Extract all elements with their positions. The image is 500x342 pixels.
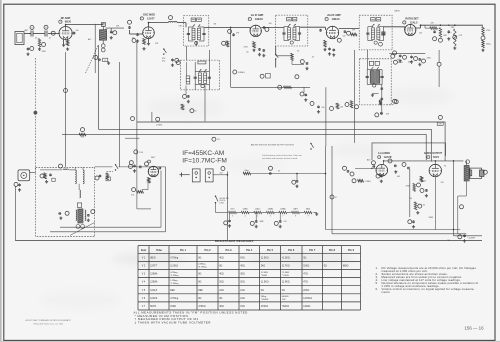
capacitor under T3 with ground	[306, 61, 308, 64]
ref circle lower right of T3	[295, 75, 299, 79]
tuner right ref circle	[91, 210, 95, 214]
T7 side trimmer caps	[366, 76, 368, 78]
ref circle R1	[42, 43, 46, 47]
svg-text:RATIO: RATIO	[395, 10, 401, 13]
T7 primary winding	[370, 71, 374, 84]
resistor on y87 wire	[284, 86, 292, 89]
FM antenna transformer windings	[75, 170, 76, 184]
ref circle C9	[175, 58, 179, 62]
tuner input resistor	[44, 173, 47, 179]
ground below trimmer	[110, 36, 112, 37]
svg-text:©Howard W. Sams & Co., Inc. 19: ©Howard W. Sams & Co., Inc. 1952	[33, 322, 63, 325]
motor ground branch	[14, 182, 18, 186]
phono plug symbol	[179, 174, 189, 176]
svg-text:0Ω: 0Ω	[324, 264, 327, 267]
svg-text:.005: .005	[397, 176, 401, 178]
svg-text:12Ω: 12Ω	[240, 289, 245, 292]
ref circle left of T5	[176, 61, 180, 65]
T7 output vertical	[381, 85, 383, 116]
svg-text:600: 600	[81, 137, 84, 139]
svg-text:1st IF AMP: 1st IF AMP	[251, 14, 264, 17]
audio top wire	[384, 160, 464, 162]
svg-text:Coil resistance values of less: Coil resistance values of less than 1 oh…	[262, 154, 303, 157]
svg-text:600KΩ: 600KΩ	[282, 296, 289, 298]
svg-text:12AT7: 12AT7	[293, 207, 298, 210]
det routing bottom return	[50, 231, 166, 233]
svg-text:B: B	[45, 27, 46, 29]
svg-text:10KΩ: 10KΩ	[303, 264, 309, 267]
phono motor box	[18, 170, 30, 181]
svg-text:35: 35	[423, 205, 425, 207]
ref circle on y87 wire	[278, 85, 282, 89]
svg-text:50C5: 50C5	[230, 208, 234, 210]
B+ riser left of T7	[354, 50, 356, 143]
ref circle near x350	[345, 103, 349, 107]
ref circle C30	[347, 31, 351, 35]
T5 primary winding	[199, 73, 202, 83]
tube V1 RF AMP 6BJ6	[59, 26, 72, 39]
T6 top lead	[466, 161, 468, 166]
svg-text:2nd IF AMP: 2nd IF AMP	[327, 14, 341, 17]
svg-text:100: 100	[343, 36, 346, 38]
filament resistor 6BJ6	[304, 211, 312, 213]
V6 grid resistor 4.7Meg	[358, 180, 364, 183]
V7 screen wire down	[434, 177, 436, 230]
svg-text:4.7MEG: 4.7MEG	[365, 181, 372, 183]
branch down from jack wire	[296, 174, 298, 181]
svg-text:40Ω: 40Ω	[219, 273, 224, 276]
svg-text:0Ω: 0Ω	[261, 289, 264, 292]
svg-text:12AV6: 12AV6	[150, 297, 158, 300]
AM-FM band switch S1A	[163, 48, 164, 49]
power riser pair	[325, 146, 327, 230]
V4 cathode resistor	[324, 40, 327, 47]
svg-text:3: 3	[232, 216, 233, 218]
capacitor C2 with ground	[27, 48, 29, 49]
resistor R21 vertical	[439, 28, 442, 38]
ground below R1	[39, 48, 41, 49]
tube V5 RATIO DET 12AL5	[405, 24, 416, 35]
wire vol to detector	[142, 189, 148, 191]
filament resistor 12AV6	[241, 211, 249, 213]
svg-text:*2.2Meg: *2.2Meg	[170, 275, 179, 277]
filament shunt c ref	[274, 221, 278, 225]
wire T2 bottom out	[195, 41, 197, 46]
svg-text:1st AUDIO: 1st AUDIO	[378, 152, 390, 155]
filament end ground	[313, 212, 316, 214]
ref circle above det wire	[129, 161, 133, 165]
ref circle lower left of T3	[260, 74, 264, 78]
svg-text:*150KΩ: *150KΩ	[261, 299, 269, 301]
AM IF transformer T5 dashed can	[180, 60, 219, 90]
wire V3 to T3	[261, 26, 284, 28]
svg-text:Tube: Tube	[156, 249, 162, 252]
vertical wire x205 to bus	[204, 86, 206, 122]
branch cap at x304	[303, 87, 305, 92]
pilot lamp circles under transformer	[76, 225, 80, 229]
wire into V2 grid	[130, 33, 144, 35]
RF input line from FM tuner	[65, 52, 67, 167]
variable capacitor C1B	[44, 31, 46, 37]
resistance table grid	[137, 246, 139, 310]
wire tuner to det section	[95, 166, 113, 168]
ref circle lower left of T7	[355, 105, 359, 109]
osc pad line x136.9	[136, 41, 138, 163]
padder capacitor	[137, 33, 139, 34]
branch cap at x186	[185, 86, 187, 95]
tuner left ground	[60, 217, 62, 218]
svg-text:ments.: ments.	[382, 290, 391, 294]
dash-dot to band switch	[107, 171, 114, 173]
svg-text:6: 6	[270, 216, 271, 218]
tuner input ground	[46, 180, 48, 181]
svg-text:4.7Meg: 4.7Meg	[170, 272, 178, 274]
filament resistor 12AT7	[292, 211, 300, 213]
filament resistor 50C5	[229, 211, 237, 213]
svg-text:1.2Meg: 1.2Meg	[170, 280, 178, 282]
band switch blade lower S1C	[115, 164, 116, 165]
line bus y235.8	[454, 235, 483, 237]
svg-text:200: 200	[220, 172, 223, 174]
filter electrolytic ref	[458, 235, 462, 239]
ref circle under T3	[300, 60, 304, 64]
T5 ref circle below windings	[201, 84, 204, 87]
svg-text:DET: DET	[151, 157, 156, 159]
wire motor to tuner box	[30, 172, 36, 174]
svg-text:.005: .005	[408, 62, 412, 64]
small label box in tuner	[52, 178, 55, 181]
V6 cathode cap and ground	[380, 174, 382, 177]
tuner top wire	[40, 169, 62, 171]
phono jack J2	[205, 169, 213, 182]
svg-text:M1: M1	[448, 240, 451, 242]
filament shunt b ref	[250, 221, 254, 225]
svg-text:12AL5: 12AL5	[255, 207, 260, 210]
ref circle on jack wire	[269, 166, 273, 170]
bottom B- bus	[15, 240, 482, 242]
svg-text:35Ω: 35Ω	[240, 273, 245, 276]
svg-text:4.7Meg: 4.7Meg	[170, 297, 179, 300]
svg-text:75: 75	[390, 157, 392, 159]
label box under ref	[437, 122, 443, 125]
svg-text:B: B	[105, 60, 106, 62]
svg-text:1Meg: 1Meg	[244, 170, 248, 172]
vertical feed wire right of V2	[230, 27, 232, 87]
tube number circle 12BA6 V4	[325, 17, 328, 20]
gang frame vertical wire	[94, 24, 96, 73]
ref circle above jacks	[221, 167, 225, 171]
vertical riser x151.9	[151, 112, 153, 122]
svg-text:0.3Meg: 0.3Meg	[198, 264, 206, 266]
dash-dot tuning link right	[386, 104, 394, 106]
vertical wire x453.5 B+	[453, 161, 455, 236]
svg-text:0.02: 0.02	[423, 181, 427, 183]
T5 label box	[198, 61, 206, 64]
cathode bypass cap	[413, 219, 415, 222]
ref circle tuner left	[65, 211, 69, 215]
svg-text:DEF: DEF	[198, 289, 203, 292]
tube V6 1st audio 12AV6	[376, 164, 388, 176]
svg-text:100: 100	[419, 33, 422, 35]
cap cluster a	[399, 54, 401, 57]
capacitor right of V4	[344, 29, 346, 32]
ref circle R21	[438, 38, 442, 42]
tuner left cap	[57, 213, 60, 215]
V6 grid cluster cap	[371, 166, 374, 168]
scan edge shading left	[0, 0, 2, 342]
capacitor on feed wire	[233, 33, 235, 34]
svg-text:4.7Meg: 4.7Meg	[170, 256, 179, 259]
svg-text:2Meg: 2Meg	[261, 296, 267, 298]
wire T2 to V3	[204, 26, 250, 28]
far right divider: resistor R23	[482, 27, 485, 36]
svg-text:0Ω: 0Ω	[282, 289, 285, 292]
trimmer cap right of T1	[110, 30, 112, 31]
svg-text:AUDIO OUTPUT: AUDIO OUTPUT	[424, 152, 443, 155]
audio riser x227.4	[226, 172, 228, 241]
resistor R41	[420, 176, 423, 182]
svg-text:ON-OFF SW.: ON-OFF SW.	[219, 198, 229, 200]
junction blob on gang line	[34, 111, 38, 115]
AM detector transformer T7 dashed can	[360, 59, 392, 105]
small resistor on bus C	[79, 133, 86, 136]
wire T3 to V4	[300, 26, 326, 28]
AM osc coil L4 ladder	[186, 76, 190, 84]
FM tuner dashed enclosure	[36, 167, 95, 236]
ref circle right of T5 with value	[233, 70, 237, 74]
svg-text:47: 47	[335, 197, 337, 199]
svg-text:7: 7	[404, 22, 405, 24]
trimmer cluster below T1	[94, 55, 98, 59]
svg-text:6.: 6.	[376, 287, 378, 291]
svg-text:100: 100	[76, 30, 79, 32]
svg-text:0.02: 0.02	[284, 221, 287, 223]
ref circle on feed wire	[228, 29, 232, 33]
svg-text:IF=10.7MC-FM: IF=10.7MC-FM	[182, 157, 227, 164]
svg-text:.05: .05	[312, 57, 315, 59]
series cap on det wire	[138, 166, 141, 168]
svg-text:*0Ω: *0Ω	[282, 299, 286, 301]
resistor right of tuner	[106, 173, 109, 180]
output B+ ref circle	[460, 205, 464, 209]
ref circle x191	[190, 109, 194, 113]
svg-text:7: 7	[326, 19, 327, 21]
svg-text:1.: 1.	[376, 266, 378, 270]
bus components x310-340	[310, 102, 314, 106]
extra refs left of V6	[343, 166, 347, 170]
svg-text:ON VOL.: ON VOL.	[219, 200, 226, 202]
capacitor C9 with ground	[172, 59, 174, 60]
svg-text:46Ω: 46Ω	[219, 305, 224, 308]
svg-text:Pin 8: Pin 8	[329, 249, 336, 252]
svg-text:.05: .05	[246, 52, 249, 54]
small coil on top edge	[63, 168, 68, 171]
ref circle on power riser	[330, 195, 334, 199]
svg-text:RATIO DET: RATIO DET	[405, 17, 419, 20]
svg-text:.05: .05	[35, 38, 38, 40]
V4 grid capacitor	[320, 28, 322, 31]
T6 coil bumps	[469, 170, 472, 176]
svg-text:470KΩ: 470KΩ	[198, 305, 206, 308]
svg-text:11.5KΩ: 11.5KΩ	[261, 256, 269, 259]
tube V2 OSC-MOD 12AT7	[143, 27, 155, 39]
svg-text:15Ω: 15Ω	[240, 305, 245, 308]
T5 frame wires	[195, 71, 209, 73]
svg-text:12BA6: 12BA6	[280, 207, 285, 210]
T4 trimmer box right	[382, 32, 385, 35]
coupling cap on audio top wire	[393, 165, 396, 167]
svg-text:0Ω: 0Ω	[219, 264, 222, 267]
svg-text:47Ω: 47Ω	[303, 281, 308, 284]
filament resistor 12AL5	[254, 211, 262, 213]
resistor near x350	[350, 101, 353, 109]
tuner input cap	[50, 173, 52, 176]
svg-text:0Ω: 0Ω	[219, 297, 222, 300]
filament shunt a cap	[229, 219, 231, 222]
svg-text:12BA6: 12BA6	[150, 281, 158, 284]
T7 secondary winding	[376, 71, 380, 84]
svg-text:12AL5: 12AL5	[410, 20, 418, 24]
oscillator coil L2	[168, 22, 177, 23]
svg-text:Pin 2: Pin 2	[205, 249, 212, 252]
svg-text:Pin 4: Pin 4	[246, 249, 253, 252]
svg-text:12BA6: 12BA6	[150, 273, 158, 276]
svg-text:12BA6: 12BA6	[268, 207, 273, 210]
svg-text:1470KΩ: 1470KΩ	[303, 297, 312, 300]
svg-text:*1.5Meg: *1.5Meg	[170, 283, 179, 285]
svg-text:6BJ6: 6BJ6	[306, 208, 310, 210]
tube V6a FM DET triode	[148, 166, 158, 176]
filter electrolytic cap	[464, 234, 466, 237]
speaker SP1 frame	[470, 168, 482, 178]
ref circle above L2	[169, 16, 173, 20]
V6a cathode resistor	[148, 178, 151, 184]
svg-text:11.5KΩ: 11.5KΩ	[170, 264, 178, 267]
resistor on feed wire	[226, 41, 229, 47]
ref circles right of T7	[393, 51, 397, 55]
bus A y=122.0	[137, 122, 445, 161]
coupling cap C50	[406, 167, 409, 169]
svg-text:Pin 3: Pin 3	[226, 249, 233, 252]
svg-text:AM-FM SWITCH SHOWN IN FM POSI: AM-FM SWITCH SHOWN IN FM POSITION	[251, 143, 294, 146]
svg-text:6BJ6: 6BJ6	[150, 256, 156, 259]
V4 bypass caps	[329, 47, 331, 50]
AVC riser x137.6	[136, 163, 138, 209]
svg-text:0Ω: 0Ω	[303, 256, 306, 259]
ground below R22	[454, 47, 456, 48]
svg-text:Pin 5: Pin 5	[267, 249, 274, 252]
svg-text:*1.5KΩ: *1.5KΩ	[282, 275, 289, 277]
on-off switch S2	[215, 196, 216, 197]
svg-text:0Ω: 0Ω	[198, 273, 201, 276]
cap right of tuner box	[99, 174, 101, 177]
svg-text:26Ω: 26Ω	[219, 281, 224, 284]
bus B y=129.3 with left riser	[99, 45, 432, 162]
tuner right cap	[87, 213, 89, 216]
volume control R30	[132, 188, 136, 192]
svg-text:7: 7	[282, 216, 283, 218]
svg-text:22KΩ: 22KΩ	[303, 289, 309, 292]
T7 feed vertical from T4	[367, 50, 369, 70]
T5 secondary winding	[204, 73, 207, 83]
cap with ref on bus A left riser	[375, 113, 379, 117]
svg-text:1.5K: 1.5K	[139, 152, 144, 154]
wire jacks to audio bus	[213, 174, 227, 176]
ref circle trimmer	[113, 31, 117, 35]
svg-text:0Ω: 0Ω	[198, 281, 201, 284]
tube number circle 6BJ6	[59, 20, 62, 23]
ref circle near V1 plate	[51, 31, 55, 35]
vertical wire from det to audio bus	[438, 50, 440, 62]
svg-text:4: 4	[245, 216, 246, 218]
ref circle branch cap	[292, 180, 296, 184]
loop antenna L1	[15, 32, 24, 45]
cathode components under V1	[63, 40, 65, 44]
caps on T7 output	[381, 86, 383, 89]
T7 label boxes	[369, 61, 373, 65]
svg-text:120: 120	[441, 182, 444, 184]
stabilizing resistor R22 tall	[454, 29, 457, 46]
svg-text:5: 5	[257, 216, 258, 218]
svg-text:5.: 5.	[376, 281, 378, 285]
svg-text:50C5: 50C5	[150, 305, 156, 308]
svg-text:LINE: LINE	[439, 124, 442, 126]
svg-text:Pin 1: Pin 1	[180, 249, 187, 252]
svg-text:47Ω: 47Ω	[303, 273, 308, 276]
svg-text:11.7KΩ: 11.7KΩ	[282, 264, 290, 267]
svg-text:150Ω: 150Ω	[170, 305, 176, 308]
svg-text:1Meg: 1Meg	[486, 44, 491, 46]
det routing inner return	[60, 226, 161, 228]
svg-text:26Ω: 26Ω	[240, 281, 245, 284]
tube number circle 12AT7	[140, 17, 143, 20]
bottom left det stub	[125, 137, 139, 139]
filament shunt c cap	[279, 219, 281, 222]
wire V5 to detector network	[416, 27, 421, 29]
de-emphasis ref circle	[391, 54, 395, 58]
filament resistor 12BA6	[266, 211, 274, 213]
svg-text:A PHOTOFACT STANDARD NOTATI: A PHOTOFACT STANDARD NOTATION SCHEMATIC	[26, 319, 72, 322]
tube number circle 12BA6 V3	[248, 17, 251, 20]
dashed gang line down left side	[35, 58, 37, 170]
resistor R24	[482, 40, 485, 48]
ref circle on speaker	[483, 170, 487, 174]
scan edge shading bottom	[0, 341, 500, 342]
svg-text:50C5: 50C5	[433, 156, 440, 159]
svg-text:.01: .01	[49, 38, 52, 40]
svg-text:*4.7Meg: *4.7Meg	[198, 267, 207, 269]
capacitor C40	[434, 29, 436, 32]
svg-text:12AV6: 12AV6	[243, 207, 248, 210]
ref circle after cap	[145, 162, 149, 166]
filament shunt a ref	[224, 221, 228, 225]
svg-text:Pin 9: Pin 9	[348, 249, 355, 252]
resistor R1	[38, 39, 41, 48]
ref circle on RF input line	[64, 89, 68, 93]
T7 internal frame wires	[366, 70, 368, 85]
T4 ref circle lower right	[379, 42, 383, 46]
svg-text:†1.5KΩ: †1.5KΩ	[282, 256, 290, 259]
tone resistor right of jacks	[243, 172, 251, 175]
svg-text:220K: 220K	[42, 51, 47, 53]
filament shunt b cap	[255, 219, 257, 222]
svg-text:51: 51	[195, 111, 197, 113]
svg-text:4.7MEG: 4.7MEG	[156, 125, 163, 127]
filament string bus	[228, 212, 317, 214]
filament resistor 12BA6	[279, 211, 287, 213]
ref circle R8	[222, 41, 226, 45]
svg-text:24Ω: 24Ω	[219, 289, 224, 292]
